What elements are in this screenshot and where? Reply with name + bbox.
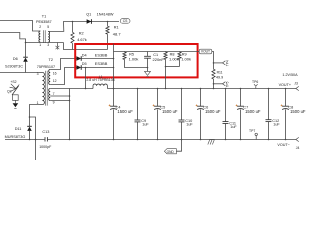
resistor R8 reference label bbox=[170, 52, 175, 56]
capacitor C12 bbox=[266, 120, 272, 122]
resistor R1 value 48.7 bbox=[113, 31, 122, 36]
diode D4 bbox=[76, 56, 81, 61]
capacitor C5 reference label bbox=[160, 106, 165, 110]
diode D11 reference label bbox=[15, 127, 22, 131]
svg-text:1.00k: 1.00k bbox=[129, 56, 139, 61]
wire T2 pin7 stub bbox=[50, 95, 69, 97]
transformer T1 pin 2 label bbox=[39, 25, 41, 29]
transformer T2 label bbox=[49, 58, 53, 62]
wire R5 bottom to ground node bbox=[125, 60, 148, 68]
resistor R5 bbox=[123, 52, 126, 60]
node VOUT net label oval bbox=[199, 49, 212, 54]
transistor Q2 reference label bbox=[7, 89, 12, 93]
ground arrow inside box bbox=[145, 71, 151, 76]
transformer T2 core bbox=[45, 71, 47, 106]
svg-text:1.00k: 1.00k bbox=[181, 56, 191, 61]
test point TP7 symbol bbox=[255, 133, 257, 139]
svg-text:Q1: Q1 bbox=[86, 12, 91, 16]
diode D11 value MURS8T3G bbox=[5, 135, 26, 139]
transformer T1 pin 1 label bbox=[39, 43, 41, 47]
node J4 connector label bbox=[296, 146, 300, 150]
text output rating 1.2V/50A bbox=[282, 73, 298, 77]
test point TP4 connector bbox=[214, 61, 226, 65]
wire T2 pin12 to diode D5 anode bbox=[50, 68, 76, 85]
svg-text:75PRB107: 75PRB107 bbox=[37, 65, 55, 69]
wire VOUT- bottom rail bbox=[5, 139, 296, 141]
capacitor C11 value 1uF bbox=[230, 125, 237, 129]
wire T2 pin9 stub bbox=[50, 100, 69, 102]
capacitor C1 value 220nF bbox=[153, 57, 165, 62]
wire T2 center tap to L1 bbox=[50, 88, 93, 90]
capacitor C6 polarity plus bbox=[196, 105, 198, 107]
node GND net tag bbox=[164, 149, 176, 154]
wire input line 2 staircase to D6 branch bbox=[0, 33, 26, 43]
test point TP5 label bbox=[225, 81, 229, 87]
wire T1 bus step into red box bbox=[64, 43, 108, 50]
capacitor C9 reference label bbox=[141, 119, 146, 123]
resistor R1 wires bbox=[107, 22, 109, 50]
wire T2 return drop to bottom rail bbox=[69, 89, 71, 140]
svg-text:1500 uF: 1500 uF bbox=[117, 109, 133, 114]
wire D5 cathode bbox=[81, 67, 113, 69]
node VOUT- label bbox=[277, 143, 289, 147]
resistor R5 wire top bbox=[124, 51, 126, 54]
svg-text:D5: D5 bbox=[82, 62, 87, 66]
capacitor C1 reference label bbox=[153, 53, 158, 57]
wire R8 R9 bottoms joined bbox=[166, 60, 180, 67]
resistor R2 reference label bbox=[79, 32, 84, 36]
capacitor C10 reference label bbox=[185, 119, 192, 123]
resistor R11 value 49.9 bbox=[216, 75, 223, 79]
wire rectifier output drop bbox=[113, 44, 115, 89]
transformer T1 value PE63587 bbox=[36, 20, 52, 24]
resistor R8 wire top bbox=[165, 51, 167, 54]
resistor R2 bbox=[71, 32, 74, 43]
capacitor C1 wires bbox=[147, 52, 149, 72]
node CS net label oval bbox=[120, 19, 130, 24]
svg-text:1500 uF: 1500 uF bbox=[290, 109, 306, 114]
inductor L1 legs bbox=[93, 86, 107, 89]
diode D6 bbox=[23, 57, 28, 62]
transformer T1 secondary winding bbox=[48, 31, 49, 42]
transformer T1 pin 5 label bbox=[47, 25, 49, 29]
svg-text:2.8 uH 75PRB108: 2.8 uH 75PRB108 bbox=[86, 78, 114, 82]
capacitor C12 branch wire bbox=[268, 89, 270, 140]
wire T2 pin3 from left edge bbox=[0, 72, 40, 74]
svg-text:ES3BB: ES3BB bbox=[95, 61, 108, 66]
inductor L1 reference label bbox=[99, 75, 103, 79]
transformer T2 pin 9 label bbox=[53, 100, 55, 104]
capacitor C10 branch wire bbox=[181, 89, 183, 140]
svg-text:ES3BB: ES3BB bbox=[95, 52, 108, 57]
wire top bus to VOUT bbox=[114, 51, 200, 53]
capacitor C13 reference label bbox=[42, 130, 49, 134]
svg-text:1: 1 bbox=[39, 43, 41, 47]
capacitor C4 polarity plus bbox=[109, 105, 111, 107]
chassis ground symbol on bottom rail bbox=[208, 140, 215, 145]
transformer T2 pin 3 label bbox=[37, 72, 39, 76]
resistor R8 bbox=[164, 52, 167, 60]
svg-text:D6: D6 bbox=[13, 57, 18, 61]
capacitor C9 branch wire bbox=[137, 89, 139, 140]
transformer T2 secondary winding upper bbox=[49, 70, 51, 85]
node VOUT+ label bbox=[279, 83, 291, 87]
wire T2 pin1 to D11 branch bbox=[30, 105, 40, 127]
diode D6 reference label bbox=[13, 57, 18, 61]
svg-text:MURS8T3G: MURS8T3G bbox=[5, 135, 26, 139]
svg-text:49.9: 49.9 bbox=[216, 75, 223, 79]
capacitor C9 value 1uF bbox=[142, 123, 149, 127]
resistor R8 value 1.00k bbox=[169, 56, 179, 61]
wire input line 1 to T1 pin 2 bbox=[0, 21, 40, 32]
svg-text:1500 uF: 1500 uF bbox=[205, 109, 221, 114]
svg-text:5: 5 bbox=[47, 25, 49, 29]
inductor L1 raised body bbox=[93, 84, 107, 86]
capacitor C4 reference label bbox=[116, 106, 121, 110]
svg-text:TP4: TP4 bbox=[225, 60, 229, 66]
capacitor C8 polarity plus bbox=[281, 105, 283, 107]
transformer T2 value 75PRB107 bbox=[37, 65, 55, 69]
svg-text:R1: R1 bbox=[114, 26, 119, 30]
resistor R5 value 1.00k bbox=[129, 56, 139, 61]
wire TP5 junction to rail bbox=[213, 84, 215, 89]
resistor R11 bbox=[212, 69, 215, 79]
inductor L1 value 2.8 uH 75PRB108 bbox=[86, 78, 114, 82]
diode Q1 value 1N4148W bbox=[97, 12, 114, 16]
highlight red box bbox=[75, 44, 197, 77]
svg-text:TP7: TP7 bbox=[249, 129, 255, 133]
svg-text:1N4148W: 1N4148W bbox=[97, 12, 114, 16]
svg-text:C13: C13 bbox=[42, 130, 49, 134]
capacitor C9 bbox=[135, 120, 141, 122]
svg-text:VOUT: VOUT bbox=[201, 50, 210, 54]
transformer T2 secondary winding lower bbox=[49, 89, 51, 101]
svg-text:1uF: 1uF bbox=[142, 123, 149, 127]
wire T1 pin5 to top net bbox=[48, 22, 119, 32]
capacitor C11 reference label bbox=[229, 122, 236, 126]
capacitor C10 value 1uF bbox=[186, 123, 193, 127]
svg-text:1.2V/50A: 1.2V/50A bbox=[282, 73, 298, 77]
transistor Q2 symbol bbox=[10, 84, 20, 101]
svg-text:TP6: TP6 bbox=[252, 80, 258, 84]
svg-text:220nF: 220nF bbox=[153, 57, 165, 62]
capacitor C7 branch wire bbox=[240, 89, 242, 140]
svg-text:J4: J4 bbox=[296, 146, 300, 150]
resistor R9 reference label bbox=[182, 52, 187, 56]
resistor R9 bbox=[178, 52, 181, 60]
wire rectifier drop is C4 branch bbox=[113, 89, 115, 140]
resistor R9 wire top bbox=[179, 51, 181, 54]
resistor R5 reference label bbox=[129, 52, 134, 56]
svg-text:3: 3 bbox=[47, 43, 49, 47]
wire earth drop below rail bbox=[35, 140, 37, 161]
capacitor C4 bbox=[110, 106, 117, 109]
resistor R2 value 4.67k bbox=[77, 37, 87, 42]
capacitor C6 value 1500 uF bbox=[205, 109, 221, 114]
capacitor C8 reference label bbox=[288, 106, 293, 110]
capacitor C1 bbox=[144, 56, 151, 58]
svg-text:D4: D4 bbox=[82, 53, 87, 57]
svg-text:J3: J3 bbox=[294, 82, 298, 86]
svg-text:1000pF: 1000pF bbox=[39, 145, 52, 149]
capacitor C5 value 1500 uF bbox=[162, 109, 178, 114]
transformer T2 pin 12 label bbox=[53, 79, 57, 83]
resistor R2 wires bbox=[72, 22, 74, 50]
capacitor C8 branch wire bbox=[285, 89, 287, 140]
svg-text:VOUT−: VOUT− bbox=[277, 143, 289, 147]
wire D5 cathode drop to output rail bbox=[85, 68, 87, 89]
transformer T1 label bbox=[42, 14, 46, 18]
transformer T2 pin 16 label bbox=[53, 71, 57, 75]
svg-text:TP5: TP5 bbox=[225, 81, 229, 87]
capacitor C8 value 1500 uF bbox=[290, 109, 306, 114]
transformer T2 pin 1 label bbox=[37, 101, 39, 105]
resistor R9 value 1.00k bbox=[181, 56, 191, 61]
capacitor C13 series plates bbox=[45, 137, 47, 141]
diode D5 bbox=[76, 65, 81, 70]
capacitor C11 bbox=[223, 122, 229, 124]
capacitor C7 polarity plus bbox=[236, 105, 238, 107]
svg-text:16: 16 bbox=[53, 71, 57, 75]
capacitor C7 value 1500 uF bbox=[245, 109, 261, 114]
wire D4 cathode bbox=[81, 58, 113, 60]
wire T1 bottom bus bbox=[26, 42, 64, 44]
transformer T2 primary winding bbox=[42, 73, 44, 105]
svg-text:9: 9 bbox=[53, 100, 55, 104]
transformer T1 primary winding bbox=[39, 31, 40, 42]
capacitor C13 value 1000pF bbox=[39, 145, 52, 149]
transformer T2 primary pin stubs bbox=[40, 73, 43, 105]
svg-text:1uF: 1uF bbox=[273, 122, 280, 126]
wire TP4 junction to R11 bbox=[213, 63, 215, 69]
capacitor C7 bbox=[237, 106, 244, 109]
capacitor C11 branch wire bbox=[225, 89, 227, 140]
svg-text:VOUT+: VOUT+ bbox=[279, 83, 291, 87]
capacitor C7 reference label bbox=[243, 106, 248, 110]
wire T2 pin16 to diode D4 anode bbox=[50, 59, 76, 70]
svg-text:+S2: +S2 bbox=[10, 80, 16, 84]
test point TP4 label bbox=[225, 60, 229, 66]
capacitor C6 reference label bbox=[203, 106, 208, 110]
capacitor C8 bbox=[282, 106, 289, 109]
wire VOUT+ top rail bbox=[107, 88, 296, 90]
svg-text:1uF: 1uF bbox=[230, 125, 237, 129]
test point TP6 label bbox=[252, 80, 258, 84]
diode Q1 1N4148W bbox=[87, 19, 92, 24]
diode D5 value ES3BB bbox=[95, 61, 108, 66]
transformer T1 core bbox=[43, 30, 45, 43]
svg-text:T2: T2 bbox=[49, 58, 53, 62]
node VOUT- arrow J4 bbox=[296, 137, 299, 141]
wire stub junction to earth drop bbox=[30, 117, 36, 140]
ground flag on T1 bottom bus bbox=[56, 43, 60, 50]
wire VOUT to R11 branch bbox=[212, 52, 214, 63]
svg-text:1uF: 1uF bbox=[186, 123, 193, 127]
svg-text:1500 uF: 1500 uF bbox=[245, 109, 261, 114]
resistor R1 reference label bbox=[114, 26, 119, 30]
resistor R11 reference label bbox=[217, 70, 223, 74]
svg-text:2: 2 bbox=[39, 25, 41, 29]
svg-text:SJ308T3C: SJ308T3C bbox=[5, 65, 23, 69]
capacitor C5 branch wire bbox=[157, 89, 159, 140]
capacitor C10 bbox=[179, 120, 185, 122]
svg-text:1500 uF: 1500 uF bbox=[162, 109, 178, 114]
diode Q1 reference label bbox=[86, 12, 91, 16]
diode D6 value SJ308T3C bbox=[5, 65, 23, 69]
wire R11 to TP5 junction bbox=[213, 79, 215, 84]
transformer T2 pin 7 label bbox=[53, 92, 55, 96]
resistor R1 bbox=[106, 26, 109, 34]
svg-text:12: 12 bbox=[53, 79, 57, 83]
svg-text:R2: R2 bbox=[79, 32, 84, 36]
svg-text:CS: CS bbox=[123, 19, 128, 23]
svg-text:48.7: 48.7 bbox=[113, 31, 122, 36]
svg-text:PE63587: PE63587 bbox=[36, 20, 52, 24]
test point TP6 symbol bbox=[254, 84, 258, 88]
ground arrow below Q2 bbox=[13, 100, 19, 108]
node J3 connector label bbox=[294, 82, 298, 86]
capacitor C5 bbox=[154, 106, 161, 109]
diode D5 reference label bbox=[82, 62, 87, 66]
capacitor C12 value 1uF bbox=[273, 122, 280, 126]
wire feedback drop to output rail bbox=[165, 67, 167, 89]
transistor Q2 label +S2 bbox=[10, 80, 16, 84]
svg-text:D11: D11 bbox=[15, 127, 22, 131]
test point TP7 label bbox=[249, 129, 255, 133]
wire junction dots bbox=[25, 21, 287, 141]
transformer T1 pin 3 label bbox=[47, 43, 49, 47]
diode D6 wires bbox=[25, 43, 27, 73]
diode D4 reference label bbox=[82, 53, 87, 57]
test point TP5 connector bbox=[214, 82, 226, 86]
capacitor C6 bbox=[197, 106, 204, 109]
diode D11 bbox=[27, 126, 32, 139]
svg-text:GND: GND bbox=[167, 150, 175, 154]
svg-text:T1: T1 bbox=[42, 14, 46, 18]
capacitor C6 branch wire bbox=[200, 89, 202, 140]
node VOUT+ arrow J3 bbox=[296, 86, 299, 90]
capacitor C12 reference label bbox=[272, 119, 279, 123]
svg-text:3: 3 bbox=[37, 72, 39, 76]
capacitor C4 value 1500 uF bbox=[117, 109, 133, 114]
wire GND tag drop bbox=[176, 140, 181, 152]
svg-text:4.67k: 4.67k bbox=[77, 37, 87, 42]
capacitor C5 polarity plus bbox=[153, 105, 155, 107]
diode D4 value ES3BB bbox=[95, 52, 108, 57]
svg-text:R11: R11 bbox=[217, 70, 223, 74]
